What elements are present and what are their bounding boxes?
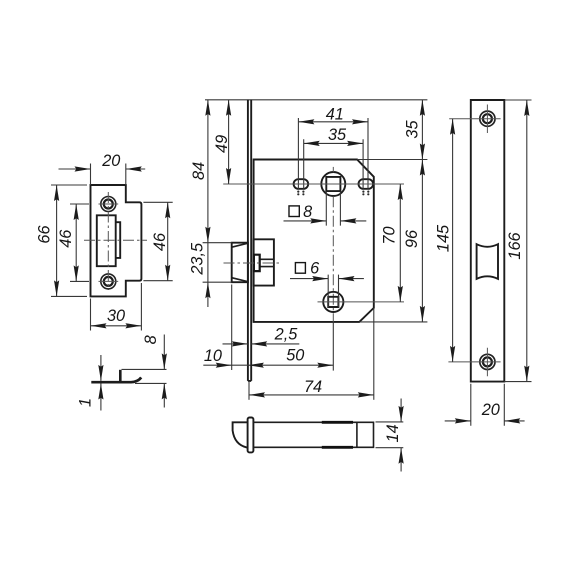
lock faceplate strip <box>248 100 251 381</box>
dimension 35 right <box>404 100 425 160</box>
latch bolt head <box>233 422 249 447</box>
front plate screw hole bottom <box>480 354 495 369</box>
svg-text:66: 66 <box>36 225 54 244</box>
extension line 84 bottom <box>203 242 232 244</box>
svg-text:20: 20 <box>481 401 500 419</box>
svg-text:46: 46 <box>57 229 75 248</box>
svg-text:30: 30 <box>107 307 125 325</box>
lock top reference line <box>205 99 427 101</box>
latch head <box>232 243 248 283</box>
screw oval hole left <box>294 179 309 189</box>
svg-text:50: 50 <box>286 347 304 365</box>
dimension 84 <box>190 100 211 243</box>
strike plate side profile bar <box>91 377 141 382</box>
dimension 46 strike plate left <box>57 204 89 281</box>
strike plate hole cross ticks <box>99 204 119 281</box>
svg-text:35: 35 <box>328 126 347 144</box>
dimension square 6 <box>290 260 364 282</box>
dimension 2,5 <box>223 326 300 347</box>
spindle square extension lines <box>326 192 340 226</box>
svg-text:74: 74 <box>304 378 322 396</box>
svg-text:10: 10 <box>204 347 222 365</box>
lock vertical centerline <box>332 196 334 322</box>
strike plate cutout lip <box>116 222 121 258</box>
lock case bottom extension <box>359 321 427 323</box>
svg-text:96: 96 <box>403 229 421 248</box>
oval extension lines 41 <box>298 118 368 189</box>
dimension 145 <box>435 119 456 362</box>
dimension 41 <box>298 105 368 124</box>
dimension 74 <box>249 378 374 398</box>
lock case outline <box>254 160 374 322</box>
svg-text:1: 1 <box>77 398 95 407</box>
strike plate screw hole top <box>101 197 116 212</box>
svg-text:145: 145 <box>435 224 453 252</box>
latch guide block <box>254 239 274 285</box>
bottom hole centerline <box>318 301 405 303</box>
dimension 8 profile <box>122 335 167 408</box>
svg-text:84: 84 <box>190 162 208 180</box>
strike plate vertical centerline <box>107 192 109 290</box>
dimension 23,5 <box>189 242 211 298</box>
lock case right edge extension <box>373 308 375 400</box>
dimension 10 and 50 line <box>203 364 333 366</box>
dimension 30 strike plate <box>91 283 142 331</box>
latch bolt divider <box>356 422 358 447</box>
latch bolt thick segments <box>322 422 353 447</box>
svg-text:49: 49 <box>213 135 231 153</box>
spindle centerline tick <box>332 167 334 172</box>
lock horizontal centerline <box>223 183 404 185</box>
dimension 14 <box>376 399 404 472</box>
svg-text:41: 41 <box>326 105 344 123</box>
dimension 46 strike plate right <box>143 202 172 280</box>
spindle hole circle <box>321 172 345 196</box>
strike plate horizontal centerline <box>84 239 147 241</box>
spindle hole square <box>326 177 340 191</box>
strike plate outline <box>91 185 142 296</box>
bottom square hole square <box>328 297 338 307</box>
dimension 49 <box>213 100 231 184</box>
dimension 84 and 23,5 shared line <box>207 100 209 307</box>
dimension 35 top <box>304 126 363 146</box>
oval extension lines 35 <box>304 139 363 189</box>
spindle extension below <box>332 322 334 371</box>
svg-text:23,5: 23,5 <box>189 242 207 276</box>
dimension square 8 <box>284 203 367 223</box>
bottom square extension lines <box>328 275 338 308</box>
svg-text:8: 8 <box>142 335 160 344</box>
lock faceplate lower extension <box>248 381 250 400</box>
latch stem <box>260 259 274 266</box>
svg-text:2,5: 2,5 <box>274 326 299 344</box>
dimension 66 strike plate <box>36 185 87 296</box>
dimension 20 front plate <box>445 384 525 426</box>
svg-text:70: 70 <box>381 226 399 244</box>
latch bolt body <box>253 422 373 447</box>
dimension 50 <box>248 347 333 368</box>
svg-text:14: 14 <box>384 424 402 442</box>
svg-text:6: 6 <box>310 260 320 278</box>
bottom square hole circle <box>323 292 343 312</box>
dimension 1 profile <box>77 355 104 411</box>
strike plate screw hole bottom <box>101 274 116 289</box>
svg-text:20: 20 <box>101 152 120 170</box>
latch spring retainer <box>254 255 260 271</box>
front plate hole crosses <box>448 105 500 377</box>
latch bolt flange <box>248 418 254 453</box>
svg-text:166: 166 <box>506 231 524 259</box>
lock case top extension <box>357 159 427 161</box>
dimension 96 <box>403 160 425 322</box>
dimension 20 strike plate <box>59 152 146 185</box>
screw oval hole right <box>359 179 374 189</box>
oval hidden dots <box>297 191 369 196</box>
front plate outline <box>471 100 505 382</box>
latch tip extension line <box>231 285 233 371</box>
svg-text:8: 8 <box>303 203 312 221</box>
dimension 166 <box>504 100 531 382</box>
latch centerline <box>224 262 280 264</box>
svg-text:46: 46 <box>151 232 169 251</box>
front plate latch opening <box>477 244 498 279</box>
svg-text:35: 35 <box>404 120 422 139</box>
dimension 70 <box>381 184 403 302</box>
extension line 23,5 bottom <box>203 281 232 283</box>
front plate screw hole top <box>480 111 495 126</box>
strike plate side profile lip <box>119 370 122 381</box>
strike plate cutout <box>97 215 116 266</box>
dimension 10 <box>204 347 232 368</box>
